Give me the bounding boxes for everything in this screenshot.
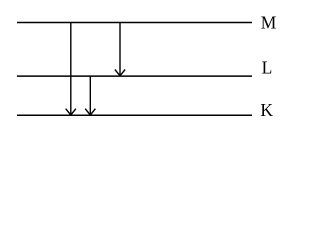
svg-text:M: M [261,12,277,32]
level line L [17,75,252,77]
transition arrow M to K shaft [70,23,72,115]
svg-text:L: L [262,58,273,78]
transition arrow L to K head [85,109,95,115]
transition arrow M to L shaft [119,23,121,76]
svg-text:K: K [260,100,273,120]
transition arrow M to K head [66,109,76,115]
level line K [17,114,252,116]
transition arrow M to L head [115,70,125,76]
transition arrow L to K shaft [89,76,91,115]
level line M [17,22,252,24]
